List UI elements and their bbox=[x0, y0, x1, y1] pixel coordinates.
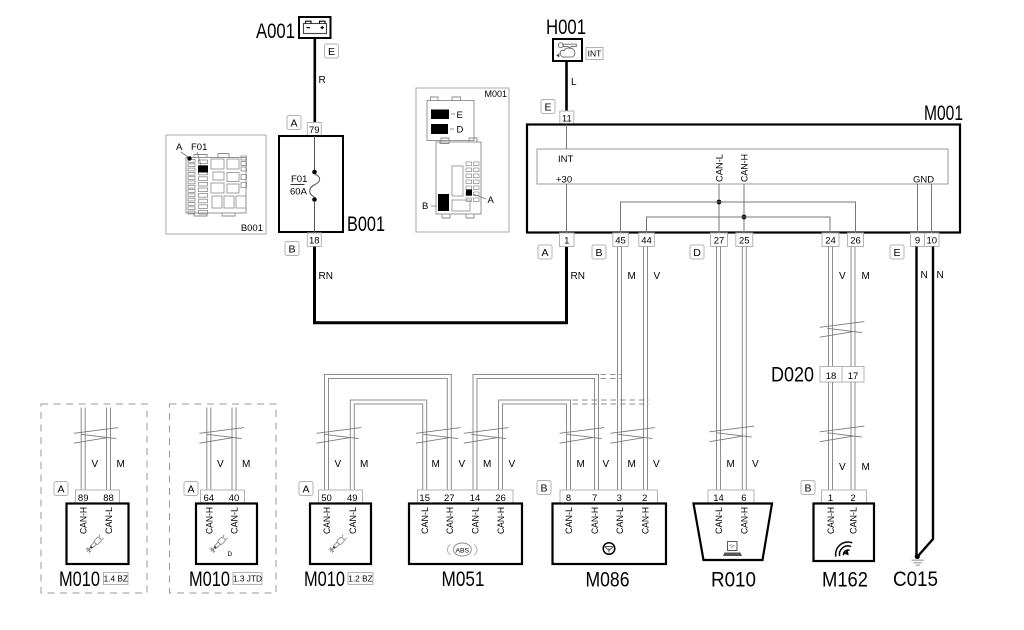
svg-text:F01: F01 bbox=[191, 142, 207, 153]
svg-text:A: A bbox=[187, 483, 194, 495]
inset label F01 with leader bbox=[191, 142, 207, 165]
pin 18 of D020 bbox=[820, 367, 842, 383]
svg-text:CAN-L: CAN-L bbox=[420, 507, 431, 534]
svg-text:18: 18 bbox=[309, 235, 320, 246]
pin row of M051 bbox=[418, 490, 514, 504]
fuse F01 60A element bbox=[310, 136, 320, 232]
injector icon M010 1.2BZ bbox=[328, 535, 347, 554]
svg-text:A: A bbox=[541, 247, 548, 259]
svg-text:79: 79 bbox=[309, 125, 320, 136]
svg-text:R010: R010 bbox=[711, 568, 756, 592]
svg-text:1.3 JTD: 1.3 JTD bbox=[233, 574, 262, 584]
connector E of M001 bottom bbox=[890, 245, 904, 259]
injector icon M010 1.3JTD with D bbox=[209, 535, 233, 558]
wire L H001 to M001 bbox=[565, 61, 568, 111]
svg-text:CAN-L: CAN-L bbox=[615, 507, 626, 534]
svg-text:M010: M010 bbox=[59, 567, 100, 591]
pin row of M010 1.2BZ bbox=[319, 490, 363, 504]
pin 44 of M001 bbox=[639, 233, 655, 247]
twisted pair M051 left bbox=[416, 428, 461, 444]
ignition switch H001 symbol box bbox=[553, 39, 582, 61]
svg-text:V: V bbox=[839, 462, 846, 473]
svg-text:V: V bbox=[654, 271, 661, 282]
svg-text:A: A bbox=[290, 117, 297, 129]
svg-text:V: V bbox=[603, 459, 610, 470]
svg-text:CAN-L: CAN-L bbox=[104, 507, 115, 534]
svg-text:INT: INT bbox=[588, 48, 602, 58]
svg-text:2: 2 bbox=[642, 493, 647, 504]
svg-text:CAN-H: CAN-H bbox=[740, 154, 751, 182]
diagnostic socket trapezoid R010 bbox=[694, 504, 773, 561]
svg-text:A: A bbox=[488, 195, 495, 206]
svg-text:88: 88 bbox=[103, 493, 114, 504]
svg-text:M001: M001 bbox=[484, 89, 507, 99]
pin 11 of M001 bbox=[560, 111, 574, 125]
computer icon R010 bbox=[723, 542, 742, 557]
steering wheel icon M086 bbox=[603, 543, 615, 555]
svg-text:2: 2 bbox=[850, 493, 855, 504]
INT tag box next to H001 bbox=[586, 48, 603, 60]
connector D of M001 bbox=[690, 245, 704, 259]
pin 9 of M001 bbox=[911, 233, 925, 247]
radio waves icon M162 bbox=[832, 538, 857, 562]
svg-text:CAN-H: CAN-H bbox=[445, 507, 456, 534]
pin row of M162 bbox=[822, 490, 867, 504]
pin row of M086 bbox=[560, 490, 658, 504]
svg-text:1.2 BZ: 1.2 BZ bbox=[348, 574, 372, 584]
twisted pair M051 right bbox=[464, 428, 509, 444]
svg-text:R: R bbox=[319, 75, 326, 86]
svg-text:M: M bbox=[727, 459, 735, 470]
pin 26 of M001 bbox=[848, 233, 864, 247]
M001 internal line from pin 11 INT bbox=[566, 125, 568, 150]
svg-text:CAN-L: CAN-L bbox=[715, 154, 726, 182]
svg-text:CAN-L: CAN-L bbox=[564, 507, 575, 534]
svg-text:M010: M010 bbox=[304, 567, 345, 591]
twisted pair M086 left bbox=[560, 428, 605, 444]
connector B of B001 bbox=[285, 242, 299, 256]
dashed bus continuation to pin3 wire bbox=[601, 375, 622, 379]
svg-text:M051: M051 bbox=[442, 567, 485, 591]
pin row of M010 1.3JTD bbox=[201, 490, 245, 504]
dashed optional-variant box M010 1.3 JTD bbox=[170, 404, 277, 593]
pin 25 of M001 bbox=[736, 233, 753, 247]
svg-text:B001: B001 bbox=[347, 213, 385, 236]
wire V from M001 pin24 to D020 pin18 bbox=[829, 247, 833, 367]
svg-text:1: 1 bbox=[564, 235, 569, 246]
twisted pair M086 right bbox=[610, 428, 655, 444]
pin 79 of B001 bbox=[307, 123, 321, 137]
connector A of M010 1.4BZ bbox=[54, 482, 68, 496]
svg-text:E: E bbox=[893, 247, 900, 259]
stub wire V of M010 1.3JTD pin64 bbox=[207, 408, 211, 491]
svg-text:C015: C015 bbox=[893, 567, 938, 591]
connector B of M162 bbox=[801, 481, 815, 495]
svg-text:M: M bbox=[628, 459, 636, 470]
svg-text:M: M bbox=[432, 459, 440, 470]
twisted pair below D020 bbox=[820, 426, 865, 442]
wire V from M001 pin44 to M086 pin2 bbox=[644, 247, 648, 491]
pin 18 of B001 bbox=[307, 233, 321, 247]
svg-text:40: 40 bbox=[229, 493, 240, 504]
svg-text:CAN-L: CAN-L bbox=[849, 507, 860, 534]
svg-text:25: 25 bbox=[739, 235, 750, 246]
svg-text:N: N bbox=[921, 270, 928, 281]
svg-text:14: 14 bbox=[470, 493, 481, 504]
svg-text:B: B bbox=[540, 482, 547, 494]
inset box M001 body-computer location drawing bbox=[416, 88, 509, 232]
svg-text:M010: M010 bbox=[189, 567, 230, 591]
M001 internal line pin 1 +30 bbox=[566, 184, 568, 233]
M001 internal CAN-L bus to pins 45 and 26 bbox=[621, 202, 856, 233]
pin 24 of M001 bbox=[822, 233, 839, 247]
svg-text:CAN-H: CAN-H bbox=[640, 507, 651, 534]
svg-text:17: 17 bbox=[848, 371, 859, 382]
svg-text:+30: +30 bbox=[556, 175, 572, 186]
svg-text:M001: M001 bbox=[924, 102, 963, 125]
svg-text:A: A bbox=[176, 142, 183, 153]
svg-text:CAN-H: CAN-H bbox=[590, 507, 601, 534]
svg-text:M: M bbox=[360, 459, 368, 470]
svg-text:CAN-L: CAN-L bbox=[714, 507, 725, 534]
svg-text:64: 64 bbox=[204, 493, 215, 504]
ground wire N from M001 pin10 to C015 bbox=[918, 247, 933, 557]
M001 internal CAN-H line with junction bbox=[742, 184, 747, 233]
CAN bus wire M051 pin14 to M086 pin7 bbox=[473, 375, 599, 491]
inset label A with leader dot bbox=[176, 142, 192, 161]
svg-text:CAN-L: CAN-L bbox=[471, 507, 482, 534]
svg-text:M: M bbox=[628, 271, 636, 282]
svg-text:E: E bbox=[544, 101, 551, 113]
svg-text:1: 1 bbox=[828, 493, 833, 504]
svg-text:M: M bbox=[577, 459, 585, 470]
connector B of M001 bbox=[592, 245, 606, 259]
svg-text:V: V bbox=[459, 459, 466, 470]
ground point C015 symbol bbox=[912, 554, 925, 565]
pin row of M010 1.4BZ bbox=[76, 490, 120, 504]
svg-text:H001: H001 bbox=[546, 16, 586, 39]
svg-text:D: D bbox=[693, 247, 701, 259]
ECU box M010 1.3 JTD bbox=[196, 504, 257, 565]
svg-text:14: 14 bbox=[713, 493, 724, 504]
inset M001 black square A bbox=[466, 190, 495, 207]
injector icon M010 1.4BZ bbox=[85, 535, 104, 554]
stub wire V of M010 1.4BZ pin89 bbox=[81, 408, 85, 491]
ABS icon M051 bbox=[447, 543, 477, 556]
svg-text:M: M bbox=[862, 462, 870, 473]
fuse value label F01 60A bbox=[290, 174, 308, 198]
svg-text:F01: F01 bbox=[291, 174, 307, 185]
svg-text:A: A bbox=[302, 483, 309, 495]
svg-text:8: 8 bbox=[566, 493, 571, 504]
svg-text:CAN-H: CAN-H bbox=[79, 507, 90, 534]
connector A of B001 bbox=[287, 116, 301, 130]
ground wire N from M001 pin9 to C015 bbox=[915, 247, 917, 557]
svg-text:89: 89 bbox=[78, 493, 89, 504]
pin 1 of M001 bbox=[560, 233, 575, 247]
svg-text:A001: A001 bbox=[256, 20, 295, 43]
svg-text:27: 27 bbox=[444, 493, 455, 504]
wire M from D020 pin17 to M162 pin2 bbox=[851, 382, 855, 490]
dashed optional-variant box M010 1.4 BZ bbox=[41, 404, 147, 593]
svg-text:CAN-H: CAN-H bbox=[322, 507, 333, 534]
svg-text:E: E bbox=[457, 110, 463, 121]
svg-text:CAN-H: CAN-H bbox=[826, 507, 837, 534]
M001 internal CAN-H bus to pins 44 and 24 bbox=[647, 217, 831, 233]
svg-text:V: V bbox=[92, 459, 99, 470]
svg-text:B001: B001 bbox=[241, 223, 263, 234]
svg-text:15: 15 bbox=[419, 493, 430, 504]
connector A of M010 1.3JTD bbox=[184, 482, 198, 496]
connector A of M010 1.2BZ bbox=[299, 482, 313, 496]
svg-text:D: D bbox=[228, 551, 233, 558]
svg-text:M: M bbox=[117, 459, 125, 470]
svg-text:M: M bbox=[483, 459, 491, 470]
svg-text:B: B bbox=[288, 243, 295, 255]
wire R battery to fuse bbox=[313, 38, 316, 123]
CAN bus wire M051 pin26 to M086 pin8 bbox=[499, 400, 571, 490]
svg-text:E: E bbox=[328, 46, 335, 58]
twisted pair M010 1.2BZ bbox=[317, 428, 362, 444]
svg-text:18: 18 bbox=[826, 371, 837, 382]
pin 10 of M001 bbox=[925, 233, 940, 247]
pin 45 of M001 bbox=[613, 233, 629, 247]
svg-text:V: V bbox=[217, 459, 224, 470]
svg-text:CAN-H: CAN-H bbox=[204, 507, 215, 534]
svg-text:RN: RN bbox=[319, 271, 333, 282]
svg-text:24: 24 bbox=[825, 235, 836, 246]
svg-text:11: 11 bbox=[562, 113, 572, 124]
pin 17 of D020 bbox=[842, 367, 864, 383]
dashed bus continuation to pin2 wire bbox=[573, 400, 650, 404]
svg-text:GND: GND bbox=[913, 175, 934, 186]
svg-text:B: B bbox=[595, 247, 602, 259]
body computer M001 box bbox=[527, 125, 960, 233]
M001 internal GND lines bbox=[918, 184, 932, 233]
inset M001 black block D bbox=[431, 124, 464, 136]
svg-text:L: L bbox=[571, 77, 577, 88]
ECU box M010 1.2 BZ bbox=[310, 504, 371, 565]
svg-text:49: 49 bbox=[347, 493, 358, 504]
svg-text:B: B bbox=[422, 201, 428, 212]
svg-text:D: D bbox=[457, 125, 464, 136]
svg-text:60A: 60A bbox=[290, 187, 308, 198]
svg-text:26: 26 bbox=[850, 235, 861, 246]
M001 internal CAN-L line with junction bbox=[717, 184, 722, 233]
svg-text:50: 50 bbox=[321, 493, 332, 504]
svg-text:B: B bbox=[804, 482, 811, 494]
svg-text:CAN-L: CAN-L bbox=[230, 507, 241, 534]
twisted pair M010 1.4BZ bbox=[74, 428, 119, 444]
svg-text:D020: D020 bbox=[771, 364, 814, 387]
variant tag 1.2 BZ bbox=[348, 573, 373, 585]
twisted pair above D020 bbox=[820, 322, 865, 338]
CAN-L bus wire M M010(1.2) pin49 to M051 pin15 bbox=[350, 400, 426, 490]
twisted pair M010 1.3JTD bbox=[199, 428, 244, 444]
radio receiver box M162 bbox=[814, 504, 875, 562]
svg-text:ABS: ABS bbox=[455, 547, 469, 554]
wire M from M001 pin45 to M086 pin3 bbox=[618, 247, 622, 491]
wire M from M001 pin26 to D020 pin17 bbox=[851, 247, 855, 367]
svg-text:V: V bbox=[509, 459, 516, 470]
svg-text:26: 26 bbox=[495, 493, 506, 504]
svg-text:V: V bbox=[839, 271, 846, 282]
svg-text:1.4 BZ: 1.4 BZ bbox=[104, 574, 128, 584]
CAN-H bus wire V M010(1.2) pin50 to M051 pin27 bbox=[325, 375, 452, 491]
svg-text:M162: M162 bbox=[822, 568, 868, 592]
wire from M001 pin25 to R010 pin6 bbox=[742, 247, 746, 491]
inset M001 black block E bbox=[431, 110, 463, 122]
svg-text:V: V bbox=[653, 459, 660, 470]
wire RN from B001 pin18 to M001 pin1 bbox=[315, 247, 567, 323]
svg-text:V: V bbox=[335, 459, 342, 470]
svg-text:M086: M086 bbox=[586, 568, 630, 592]
steering module box M086 bbox=[553, 504, 667, 565]
wire from M001 pin27 to R010 pin14 bbox=[717, 247, 721, 491]
svg-text:27: 27 bbox=[714, 235, 725, 246]
svg-text:M: M bbox=[242, 459, 250, 470]
battery A001 symbol box bbox=[299, 17, 331, 38]
svg-text:7: 7 bbox=[592, 493, 597, 504]
svg-text:CAN-H: CAN-H bbox=[739, 507, 750, 534]
inset M001 black block B bbox=[422, 194, 449, 212]
twisted pair R010 bbox=[709, 426, 754, 442]
stub wire M of M010 1.3JTD pin40 bbox=[232, 408, 236, 491]
svg-text:M: M bbox=[862, 271, 870, 282]
ECU box M010 1.4 BZ bbox=[67, 504, 129, 565]
svg-text:10: 10 bbox=[927, 235, 938, 246]
connector A of M001 bbox=[538, 245, 552, 259]
svg-text:INT: INT bbox=[558, 154, 574, 165]
ABS ECU box M051 bbox=[409, 504, 522, 565]
svg-text:6: 6 bbox=[741, 493, 746, 504]
svg-text:3: 3 bbox=[617, 493, 622, 504]
svg-text:CAN-H: CAN-H bbox=[496, 507, 507, 534]
svg-text:V: V bbox=[752, 459, 759, 470]
connector E of A001 bbox=[325, 44, 339, 58]
stub wire M of M010 1.4BZ pin88 bbox=[107, 408, 111, 491]
svg-text:45: 45 bbox=[615, 235, 626, 246]
inset box B001 fuse-box location drawing bbox=[166, 135, 266, 234]
pin 27 of M001 bbox=[711, 233, 728, 247]
pin row of R010 bbox=[708, 490, 754, 504]
svg-text:A: A bbox=[57, 483, 64, 495]
wire V from D020 pin18 to M162 pin1 bbox=[829, 382, 833, 490]
connector E of M001 top bbox=[541, 100, 555, 114]
fuse box B001 bbox=[279, 136, 343, 232]
svg-text:44: 44 bbox=[641, 235, 652, 246]
variant tag 1.4 BZ bbox=[104, 573, 129, 585]
variant tag 1.3 JTD bbox=[233, 573, 262, 585]
svg-text:RN: RN bbox=[571, 271, 585, 282]
svg-text:9: 9 bbox=[915, 235, 920, 246]
connector B of M086 bbox=[537, 481, 551, 495]
M001 internal block rectangle bbox=[537, 149, 948, 184]
highlighted fuse F01 in inset bbox=[198, 166, 208, 173]
svg-text:N: N bbox=[937, 270, 944, 281]
svg-text:CAN-L: CAN-L bbox=[348, 507, 359, 534]
